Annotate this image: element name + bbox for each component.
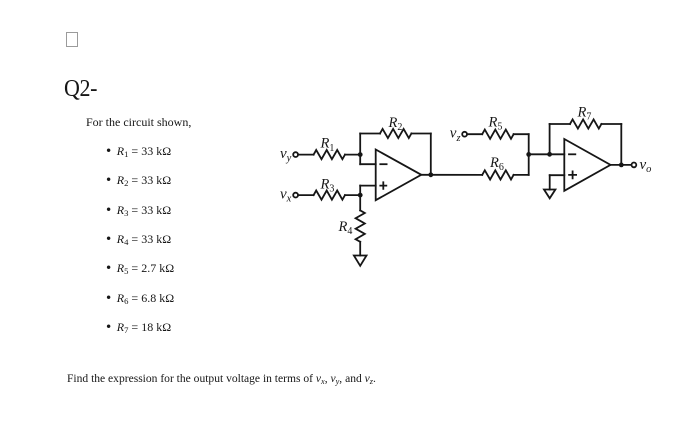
wire R6 corner up to node C: [528, 154, 530, 175]
node D: [547, 152, 552, 157]
node out1: [428, 172, 433, 177]
resistor R1: [314, 150, 345, 159]
wire R7 top right: [601, 123, 621, 125]
op-amp U1: [376, 150, 422, 201]
svg-text:vo: vo: [640, 157, 652, 175]
wire node B up to noninverting input: [359, 186, 361, 196]
wire R7 top left: [550, 123, 570, 125]
wire R5 to corner: [514, 133, 529, 135]
wire R7 left vertical: [549, 124, 551, 154]
op-amp U2: [564, 139, 610, 191]
node C: [526, 152, 531, 157]
svg-text:R2: R2: [388, 115, 403, 133]
wire vx to R3: [298, 194, 313, 196]
wire op-amp2 output: [611, 164, 632, 166]
wire R4 to ground: [359, 242, 361, 256]
wire to op-amp1 inverting input: [360, 163, 376, 165]
wire op-amp1 output to R6: [421, 174, 482, 176]
svg-text:R3: R3: [320, 176, 335, 194]
resistor R2: [380, 129, 411, 138]
node B: [358, 193, 363, 198]
resistor R4: [356, 210, 365, 241]
svg-text:vz: vz: [450, 126, 461, 144]
svg-text:vy: vy: [280, 146, 292, 164]
wire vy to R1: [298, 154, 313, 156]
intro line: [86, 115, 191, 130]
bullet list R1..R7: [106, 144, 171, 159]
op-amp U1 minus sign: [380, 163, 386, 165]
op-amp U1 plus sign: [380, 182, 386, 189]
wire R2 right vertical to output: [430, 134, 432, 175]
ground (op-amp2): [544, 190, 555, 199]
placeholder image box: [66, 32, 78, 47]
wire ground drop: [549, 175, 551, 189]
resistor R7: [570, 119, 601, 128]
heading Q2-: [64, 74, 97, 102]
wire vz to R5: [467, 133, 482, 135]
terminal v_y: [293, 152, 298, 157]
svg-text:R7: R7: [577, 104, 592, 122]
wire R3 to node B: [345, 194, 360, 196]
wire node A vertical (R2 branch down to inverting input): [359, 134, 361, 165]
svg-text:R1: R1: [320, 136, 335, 154]
wire R7 right vertical to output: [620, 124, 622, 165]
wire R2 top right: [411, 133, 430, 135]
resistor R6: [482, 170, 513, 179]
svg-text:R4: R4: [338, 219, 353, 237]
wire node B down to R4: [359, 195, 361, 210]
wire R1 to node A: [345, 154, 360, 156]
bottom question line: [67, 373, 376, 385]
svg-text:R5: R5: [488, 114, 503, 132]
svg-text:vx: vx: [280, 186, 292, 204]
wire R6 to corner: [514, 174, 529, 176]
svg-text:R6: R6: [489, 155, 504, 173]
wire to op-amp1 noninverting input: [360, 185, 376, 187]
wire R2 top left: [360, 133, 380, 135]
ground (R4): [354, 256, 367, 266]
wire op-amp2 noninverting to ground corner: [550, 174, 565, 176]
node out2: [619, 163, 624, 168]
resistor R5: [482, 130, 513, 139]
terminal v_o: [632, 163, 637, 168]
terminal v_x: [293, 193, 298, 198]
resistor R3: [314, 191, 345, 200]
wire R5 corner down to node C: [528, 134, 530, 154]
op-amp U2 minus sign: [569, 153, 575, 155]
terminal v_z: [462, 132, 467, 137]
op-amp U2 plus sign: [569, 171, 576, 178]
node A: [358, 152, 363, 157]
wire node C to op-amp2 inverting input: [529, 153, 565, 155]
